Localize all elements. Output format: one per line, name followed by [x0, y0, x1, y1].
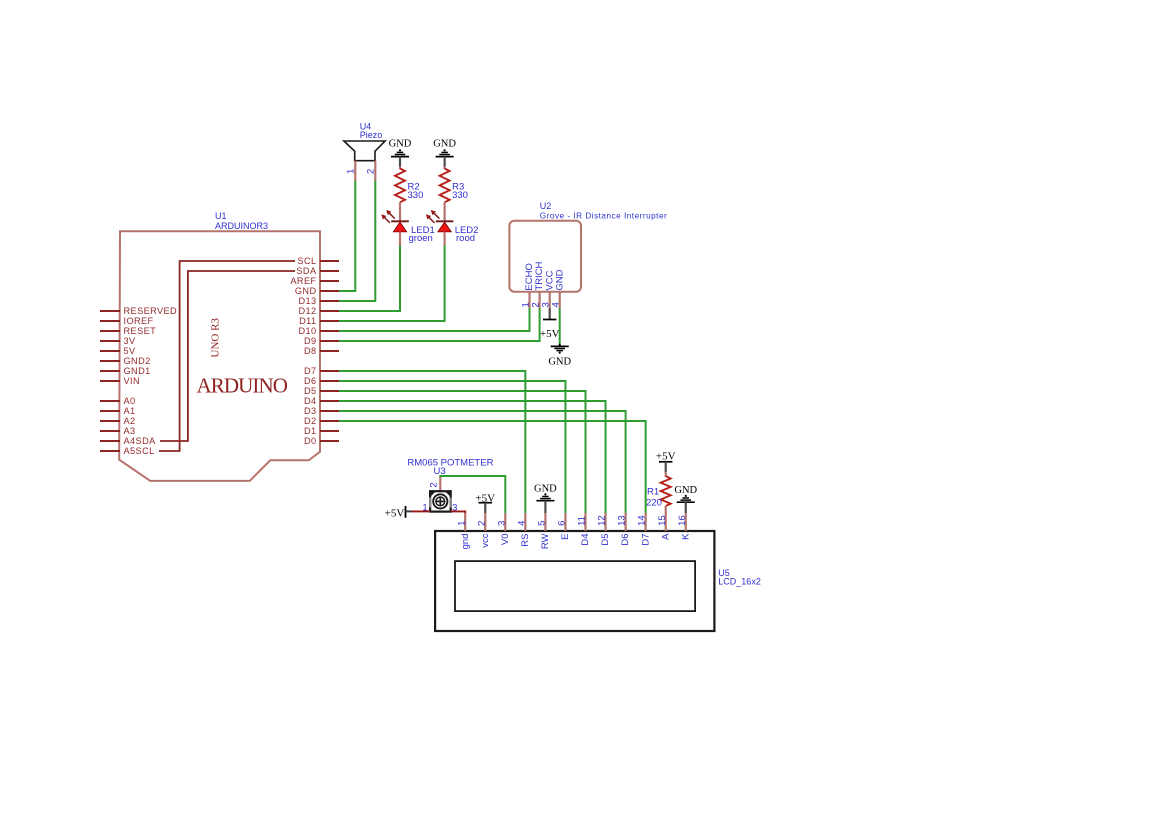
svg-text:A: A	[660, 533, 671, 540]
resistor R3 bottom lead	[444, 202, 446, 221]
arduino pin D1 stub	[320, 430, 339, 432]
svg-text:vcc: vcc	[480, 533, 491, 548]
LCD pin number 14	[637, 515, 648, 526]
wire grove GND down	[559, 308, 561, 344]
wire grove TRICH to D9	[339, 308, 540, 341]
svg-text:D7: D7	[640, 534, 651, 546]
piezo pin 2 leg	[374, 161, 376, 181]
pot pin 2 leg	[439, 477, 441, 491]
LCD pin name D5	[600, 534, 611, 546]
resistor R1 label	[646, 487, 662, 509]
svg-text:3V: 3V	[124, 336, 137, 346]
svg-text:A3: A3	[124, 426, 136, 436]
LED LED1	[382, 211, 409, 232]
LCD display window	[455, 561, 695, 611]
svg-text:D4: D4	[580, 534, 591, 546]
wire +5V to pot pin1	[406, 510, 431, 512]
LCD pin number 1	[456, 521, 467, 526]
svg-text:1: 1	[456, 521, 467, 526]
wire D3 to LCD D6	[339, 411, 626, 513]
grove pin GND name	[554, 269, 565, 290]
ground symbol GND (LCD K)	[674, 485, 697, 502]
arduino pin GND label	[295, 286, 317, 296]
LCD U5 label	[718, 568, 761, 587]
grove pin number 3	[541, 302, 552, 307]
ground symbol GND (LCD RW)	[534, 484, 557, 501]
arduino pin D6 stub	[320, 380, 339, 382]
grove pin VCC name	[544, 270, 555, 290]
svg-text:4: 4	[516, 521, 527, 526]
svg-text:D10: D10	[298, 326, 316, 336]
LCD pin number 12	[597, 515, 608, 526]
LCD pin number 13	[617, 515, 628, 526]
LCD pin 1 leg	[464, 513, 466, 531]
ground symbol GND (above R3)	[433, 139, 456, 157]
arduino pin AREF stub	[320, 280, 339, 282]
+5V stub (LCD vcc)	[484, 503, 486, 513]
arduino pin A2 stub	[100, 420, 120, 422]
resistor R1	[661, 476, 671, 506]
LED LED2 label	[455, 225, 479, 244]
svg-text:A1: A1	[124, 406, 136, 416]
arduino pin A5SCL label	[124, 446, 155, 456]
LCD pin name RW	[540, 533, 551, 549]
svg-text:+5V: +5V	[656, 450, 676, 462]
LCD pin 15 leg	[665, 513, 667, 531]
LCD pin name D7	[640, 534, 651, 546]
arduino pin IOREF stub	[100, 320, 120, 322]
resistor R3	[440, 169, 450, 203]
ground symbol GND (grove)	[548, 344, 571, 368]
piezo U4 body	[344, 141, 385, 161]
arduino pin RESET stub	[100, 330, 120, 332]
arduino U1 body outline	[119, 231, 320, 481]
svg-text:ARDUINOR3: ARDUINOR3	[215, 221, 268, 231]
+5V stub (grove VCC)	[549, 308, 551, 320]
arduino pin A3 label	[124, 426, 136, 436]
arduino pin D3 label	[304, 406, 317, 416]
resistor R1 top lead	[665, 472, 667, 476]
+5V symbol (R1)	[656, 450, 676, 462]
piezo U4 label	[360, 122, 383, 140]
arduino pin D7 label	[304, 366, 317, 376]
resistor R3 top lead	[444, 167, 446, 170]
arduino pin A5SCL stub	[100, 450, 120, 452]
svg-text:GND: GND	[433, 139, 456, 150]
svg-text:330: 330	[452, 190, 468, 201]
LED LED2 bottom lead	[444, 232, 446, 246]
arduino pin GND2 stub	[100, 360, 120, 362]
piezo pin 1 leg	[354, 161, 356, 181]
svg-text:D11: D11	[299, 316, 316, 326]
LCD pin number 16	[677, 515, 688, 526]
arduino pin D13 stub	[320, 300, 339, 302]
svg-text:GND: GND	[295, 286, 317, 296]
arduino pin D13 label	[298, 296, 316, 306]
LCD pin number 6	[557, 521, 568, 526]
grove pin number 1	[521, 302, 532, 307]
arduino pin VIN stub	[100, 380, 120, 382]
arduino pin D8 label	[304, 346, 317, 356]
svg-text:11: 11	[577, 516, 588, 526]
arduino pin D0 stub	[320, 440, 339, 442]
arduino pin A1 label	[124, 406, 136, 416]
svg-text:V0: V0	[500, 534, 511, 546]
svg-text:D3: D3	[304, 406, 317, 416]
arduino pin RESERVED stub	[100, 310, 120, 312]
piezo pin number 1	[346, 169, 357, 174]
arduino pin A0 stub	[100, 400, 120, 402]
svg-text:Piezo: Piezo	[360, 130, 383, 140]
arduino pin D10 stub	[320, 330, 339, 332]
arduino pin A1 stub	[100, 410, 120, 412]
arduino pin SCL label	[297, 256, 316, 266]
svg-text:14: 14	[637, 515, 648, 526]
svg-text:R1: R1	[647, 487, 659, 498]
grove pin 4 leg	[559, 292, 561, 308]
arduino pin IOREF label	[124, 316, 154, 326]
arduino pin A4SDA stub	[100, 440, 120, 442]
+5V symbol (grove VCC)	[540, 320, 560, 340]
svg-text:GND: GND	[534, 484, 557, 495]
arduino pin RESERVED label	[124, 306, 178, 316]
arduino text ARDUINO	[197, 374, 288, 398]
svg-text:D12: D12	[298, 306, 316, 316]
pot U3 label	[407, 457, 493, 476]
LCD pin number 4	[516, 521, 527, 526]
svg-text:15: 15	[657, 515, 668, 526]
grove pin ECHO name	[524, 263, 535, 290]
arduino pin 3V stub	[100, 340, 120, 342]
ground stub (LCD K)	[685, 502, 687, 513]
svg-text:D4: D4	[304, 396, 317, 406]
svg-text:GND: GND	[554, 269, 565, 290]
wire D5 to LCD D4	[339, 391, 586, 513]
wire piezo2 to D13	[339, 181, 375, 301]
resistor R1 bottom lead	[665, 506, 667, 513]
wire pot pin3 to LCD gnd	[451, 511, 466, 513]
svg-text:4: 4	[551, 302, 562, 307]
arduino pin D2 stub	[320, 420, 339, 422]
arduino pin SDA label	[296, 266, 317, 276]
arduino pin GND2 label	[124, 356, 151, 366]
svg-text:+5V: +5V	[540, 328, 560, 340]
arduino pin A4SDA label	[124, 436, 157, 446]
arduino pin GND stub	[320, 290, 339, 292]
svg-text:RM065 POTMETER: RM065 POTMETER	[407, 457, 493, 468]
wire LED2 to D11	[339, 246, 445, 322]
LCD pin 14 leg	[645, 513, 647, 531]
arduino pin D3 stub	[320, 410, 339, 412]
pot pin number 1	[422, 502, 427, 513]
svg-text:K: K	[680, 533, 691, 540]
ground symbol GND (above R2)	[389, 139, 412, 157]
LCD pin 2 leg	[484, 513, 486, 531]
LCD pin number 3	[496, 521, 507, 526]
grove U2 label	[540, 201, 667, 221]
svg-text:rood: rood	[456, 233, 475, 244]
svg-text:D6: D6	[304, 376, 317, 386]
svg-text:GND2: GND2	[124, 356, 151, 366]
arduino pin 5V stub	[100, 350, 120, 352]
svg-text:D0: D0	[304, 436, 317, 446]
arduino pin D8 stub	[320, 350, 339, 352]
svg-text:D5: D5	[600, 534, 611, 546]
svg-text:LCD_16x2: LCD_16x2	[718, 577, 761, 587]
LCD pin name A	[660, 533, 671, 540]
LCD pin 5 leg	[544, 513, 546, 531]
ground stub (LCD RW)	[544, 501, 546, 513]
svg-text:2: 2	[476, 521, 487, 526]
LCD pin name vcc	[480, 533, 491, 548]
svg-text:D8: D8	[304, 346, 317, 356]
arduino pin 5V label	[124, 346, 137, 356]
arduino pin D11 label	[299, 316, 316, 326]
resistor R2 top lead	[399, 167, 401, 170]
arduino pin D5 label	[304, 386, 317, 396]
svg-text:UNO R3: UNO R3	[209, 318, 221, 358]
svg-text:3: 3	[496, 521, 507, 526]
LCD pin name D4	[580, 534, 591, 546]
arduino pin GND1 stub	[100, 370, 120, 372]
arduino pin VIN label	[124, 376, 141, 386]
grove pin 2 leg	[538, 292, 540, 308]
svg-text:GND: GND	[674, 485, 697, 496]
svg-text:RESET: RESET	[124, 326, 157, 336]
arduino pin D4 label	[304, 396, 317, 406]
LCD pin 12 leg	[604, 513, 606, 531]
arduino text UNO R3	[209, 318, 221, 358]
arduino pin SDA stub	[320, 270, 339, 272]
svg-text:D7: D7	[304, 366, 317, 376]
arduino pin D7 stub	[320, 370, 339, 372]
LCD pin name V0	[500, 534, 511, 546]
LCD pin 13 leg	[624, 513, 626, 531]
wire LED1 to D12	[339, 246, 400, 312]
svg-text:D2: D2	[304, 416, 317, 426]
svg-text:D1: D1	[304, 426, 317, 436]
svg-text:A4SDA: A4SDA	[124, 436, 157, 446]
svg-text:12: 12	[597, 515, 608, 526]
grove pin number 2	[531, 302, 542, 307]
wire pot wiper to LCD V0	[440, 476, 505, 513]
svg-text:VIN: VIN	[124, 376, 141, 386]
arduino pin D4 stub	[320, 400, 339, 402]
LED LED1 bottom lead	[399, 232, 401, 246]
svg-text:U2: U2	[540, 201, 552, 211]
grove pin number 4	[551, 302, 562, 307]
arduino pin D5 stub	[320, 390, 339, 392]
svg-text:+5V: +5V	[385, 507, 405, 519]
svg-text:IOREF: IOREF	[124, 316, 154, 326]
svg-text:Grove - IR Distance Interrupte: Grove - IR Distance Interrupter	[540, 212, 667, 221]
svg-text:D6: D6	[620, 534, 631, 546]
arduino pin AREF label	[290, 276, 316, 286]
LCD pin number 2	[476, 521, 487, 526]
LCD pin 3 leg	[504, 513, 506, 531]
+5V symbol (LCD vcc)	[475, 492, 495, 504]
arduino pin D1 label	[304, 426, 317, 436]
arduino pin 3V label	[124, 336, 137, 346]
svg-text:SDA: SDA	[296, 266, 317, 276]
svg-text:D9: D9	[304, 336, 317, 346]
arduino U1 label	[215, 211, 268, 231]
svg-text:16: 16	[677, 515, 688, 526]
LCD pin number 11	[577, 516, 588, 526]
arduino pin SCL stub	[320, 260, 339, 262]
arduino pin A2 label	[124, 416, 136, 426]
+5V stub (R1)	[665, 462, 667, 473]
LCD pin name E	[560, 534, 571, 540]
LCD pin name gnd	[460, 534, 471, 550]
ground stub (above R2)	[399, 157, 401, 167]
arduino pin A3 stub	[100, 430, 120, 432]
arduino pin D12 label	[298, 306, 316, 316]
svg-text:A2: A2	[124, 416, 136, 426]
arduino pin D12 stub	[320, 310, 339, 312]
wire A5SCL to SCL	[159, 261, 295, 451]
LCD pin 11 leg	[584, 513, 586, 531]
svg-text:GND: GND	[389, 139, 412, 150]
LCD pin name RS	[520, 534, 531, 547]
svg-text:A0: A0	[124, 396, 136, 406]
svg-text:6: 6	[557, 521, 568, 526]
LCD pin 6 leg	[564, 513, 566, 531]
wire D6 to LCD E	[339, 381, 565, 513]
svg-text:RW: RW	[540, 533, 551, 549]
LED LED1 label	[409, 225, 435, 244]
arduino pin D9 stub	[320, 340, 339, 342]
pot pin number 3	[452, 502, 457, 513]
svg-text:AREF: AREF	[290, 276, 316, 286]
resistor R2	[395, 169, 405, 203]
pot pin number 2	[428, 482, 439, 487]
wire D4 to LCD D5	[339, 401, 606, 513]
svg-text:5V: 5V	[124, 346, 137, 356]
svg-text:13: 13	[617, 515, 628, 526]
svg-text:U1: U1	[215, 211, 227, 221]
arduino pin A0 label	[124, 396, 136, 406]
svg-text:GND: GND	[548, 357, 571, 368]
arduino pin D10 label	[298, 326, 316, 336]
arduino pin D0 label	[304, 436, 317, 446]
svg-text:330: 330	[408, 190, 424, 201]
arduino pin D9 label	[304, 336, 317, 346]
wire grove ECHO to D10	[339, 308, 530, 331]
svg-text:220: 220	[646, 498, 662, 509]
svg-text:gnd: gnd	[460, 534, 471, 550]
grove pin 1 leg	[528, 292, 530, 308]
LCD pin number 5	[537, 521, 548, 526]
svg-text:groen: groen	[409, 233, 433, 244]
svg-text:1: 1	[346, 169, 357, 174]
wire D7 to LCD RS	[339, 371, 525, 513]
svg-text:5: 5	[537, 521, 548, 526]
svg-text:SCL: SCL	[297, 256, 316, 266]
wire A4SDA to SDA	[160, 271, 295, 441]
arduino pin D11 stub	[320, 320, 339, 322]
svg-text:RS: RS	[520, 534, 531, 547]
svg-text:A5SCL: A5SCL	[124, 446, 155, 456]
resistor R2 bottom lead	[399, 202, 401, 221]
svg-text:D5: D5	[304, 386, 317, 396]
grove U2 body	[509, 221, 581, 292]
svg-text:E: E	[560, 534, 571, 540]
svg-text:D13: D13	[298, 296, 316, 306]
wire D2 to LCD D7	[339, 421, 646, 513]
LCD pin name D6	[620, 534, 631, 546]
LCD pin 16 leg	[685, 513, 687, 531]
arduino pin D2 label	[304, 416, 317, 426]
svg-text:GND1: GND1	[124, 366, 151, 376]
grove pin TRICH name	[534, 261, 545, 290]
arduino pin GND1 label	[124, 366, 151, 376]
LCD pin name K	[680, 533, 691, 540]
arduino pin D6 label	[304, 376, 317, 386]
svg-text:2: 2	[428, 482, 439, 487]
LCD pin number 15	[657, 515, 668, 526]
svg-text:ARDUINO: ARDUINO	[197, 374, 288, 398]
LCD U5 body	[435, 531, 714, 631]
grove pin 3 leg	[549, 292, 551, 308]
LCD pin 4 leg	[524, 513, 526, 531]
LED LED2	[426, 211, 453, 232]
svg-text:RESERVED: RESERVED	[124, 306, 178, 316]
+5V symbol (pot)	[385, 506, 406, 519]
arduino pin RESET label	[124, 326, 157, 336]
svg-text:2: 2	[366, 169, 377, 174]
wire piezo1 to GND pin	[339, 181, 355, 291]
resistor R3 label	[452, 182, 468, 202]
pot U3 body	[430, 491, 451, 511]
resistor R2 label	[408, 182, 424, 202]
piezo pin number 2	[366, 169, 377, 174]
ground stub (above R3)	[444, 157, 446, 167]
